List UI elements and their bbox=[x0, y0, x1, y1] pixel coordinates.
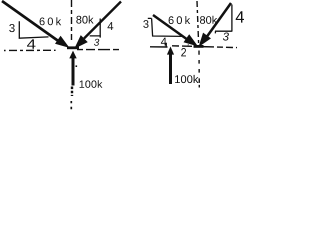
dotted continuation further below (left diagram) bbox=[70, 101, 72, 111]
slope label 3 (left diagram, 60k triangle) bbox=[9, 24, 15, 32]
slope label 4 (right diagram, 80k triangle) bbox=[236, 11, 244, 22]
slope label 4 (right diagram, 60k triangle) bbox=[161, 38, 167, 46]
arrowhead of 60k force (left diagram) bbox=[56, 37, 67, 46]
arrowhead of 100k force (right diagram) bbox=[167, 47, 174, 55]
vertical dashed center line above node (left diagram) bbox=[71, 0, 73, 40]
label 80k (left diagram) bbox=[76, 16, 93, 24]
horizontal dashed reference line left of node (left diagram) bbox=[4, 49, 56, 51]
horizontal dashed reference line right of node (left diagram) bbox=[77, 49, 122, 51]
label 60k (left diagram) bbox=[40, 17, 62, 25]
dimension label 2 feet (right diagram) bbox=[181, 44, 189, 56]
vertical dashed center line above node (right diagram) bbox=[197, 1, 199, 43]
slope label 4 (left diagram, 60k triangle) bbox=[27, 39, 36, 48]
small tick on reference line left of 100k arrow (right diagram) bbox=[165, 43, 167, 47]
label 100k (right diagram) bbox=[175, 75, 198, 83]
horizontal dashed reference line through node (right diagram) bbox=[172, 46, 237, 48]
node blob at force intersection (left diagram) bbox=[67, 46, 79, 49]
slope label 3 (left diagram, 80k triangle) bbox=[94, 39, 99, 46]
node blob at force intersection (right diagram) bbox=[194, 45, 204, 48]
label 100k (left diagram) bbox=[80, 80, 103, 88]
force 80k line (right diagram) bbox=[207, 3, 231, 37]
horizontal reference line long first dash (right diagram) bbox=[150, 46, 168, 48]
force 60k line (right diagram) bbox=[153, 15, 188, 40]
label 80k (right diagram) bbox=[200, 16, 217, 24]
arrowhead of 80k force (right diagram) bbox=[200, 34, 210, 45]
arrowhead of 100k force (left diagram) bbox=[69, 51, 76, 59]
small stray dash right of 100k arrow (left diagram) bbox=[75, 65, 77, 67]
arrowhead of 60k force (right diagram) bbox=[185, 36, 196, 45]
vertical dashed center line below node (right diagram) bbox=[198, 51, 200, 88]
force 60k line (left diagram) bbox=[2, 1, 59, 42]
label 60k (right diagram) bbox=[169, 16, 191, 24]
slope label 4 (left diagram, 80k triangle) bbox=[108, 22, 114, 30]
force 100k arrow shaft (right diagram) bbox=[169, 53, 172, 85]
slope label 3 (right diagram, 60k triangle) bbox=[143, 20, 148, 28]
force 100k arrow shaft (left diagram) bbox=[72, 57, 75, 86]
slope label 3 (right diagram, 80k triangle) bbox=[223, 33, 229, 41]
force 80k line (left diagram) bbox=[84, 2, 121, 39]
slope triangle of 80k force: legs (left diagram) bbox=[90, 19, 101, 38]
slope triangle of 60k force: legs with end ticks (right diagram) bbox=[148, 18, 183, 36]
slope triangle of 80k force: legs (right diagram) bbox=[215, 5, 232, 34]
arrowhead of 80k force (left diagram) bbox=[76, 37, 86, 48]
dashed continuation below 100k arrow (left diagram) bbox=[71, 87, 73, 97]
slope triangle of 60k force: legs with end ticks (left diagram) bbox=[19, 21, 48, 38]
